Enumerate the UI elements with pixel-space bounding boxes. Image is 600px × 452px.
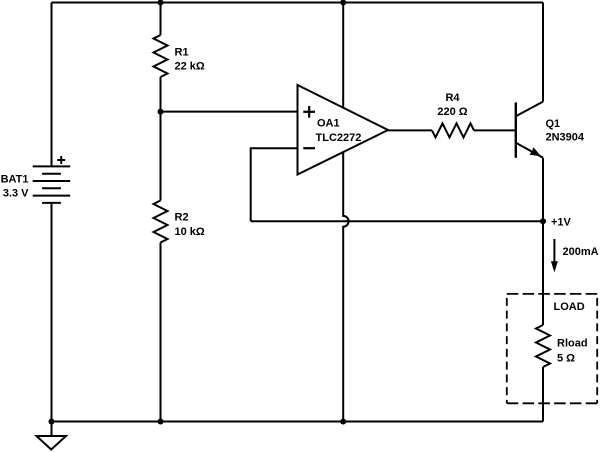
battery BAT1 — [33, 156, 70, 203]
wire: inverting input feedback (left and down) — [251, 148, 298, 221]
svg-text:LOAD: LOAD — [554, 301, 585, 313]
LOAD dashed box — [507, 294, 597, 403]
junction: ground node — [49, 419, 55, 425]
label LOAD — [554, 301, 585, 313]
junction: bottom rail / divider column — [158, 419, 164, 425]
wire: bottom rail — [52, 421, 544, 423]
junction: divider node to op-amp — [158, 109, 164, 115]
wire: R1 to R2 — [160, 77, 162, 201]
svg-text:R1: R1 — [175, 46, 189, 58]
current arrow 200mA — [551, 239, 558, 272]
label 200mA — [563, 246, 599, 258]
wire: +1V node to Rload — [542, 221, 544, 325]
wire: top rail to R1 — [160, 3, 162, 36]
junction: top rail / divider column — [158, 0, 164, 6]
op-amp OA1 — [298, 85, 389, 175]
svg-text:2N3904: 2N3904 — [546, 132, 585, 144]
svg-text:R2: R2 — [175, 211, 189, 223]
svg-text:Rload: Rload — [557, 338, 588, 350]
svg-text:+1V: +1V — [551, 216, 572, 228]
label OA1 TLC2272 — [316, 118, 362, 145]
wire: battery negative lead to bottom rail — [51, 203, 53, 422]
junction: +1V node — [540, 218, 546, 224]
junction: bottom rail / V- supply — [340, 419, 346, 425]
resistor R1 — [154, 35, 168, 77]
label Q1 2N3904 — [546, 118, 585, 144]
svg-text:Q1: Q1 — [546, 118, 561, 130]
wire: feedback run to emitter node — [251, 220, 543, 222]
svg-text:5 Ω: 5 Ω — [557, 353, 575, 365]
resistor R2 — [154, 201, 168, 243]
resistor Rload — [536, 325, 550, 367]
svg-text:R4: R4 — [445, 92, 460, 104]
wire: top rail — [52, 2, 544, 4]
svg-text:3.3 V: 3.3 V — [3, 188, 29, 200]
label R1 22 kOhm — [175, 46, 205, 72]
label R2 10 kOhm — [175, 211, 205, 238]
wire: Q1 emitter to +1V node — [542, 158, 544, 222]
label Rload 5 Ohm — [557, 338, 588, 365]
wire: R4 to Q1 base — [474, 129, 516, 131]
svg-text:TLC2272: TLC2272 — [316, 132, 362, 144]
svg-text:200mA: 200mA — [563, 246, 599, 258]
ground — [37, 422, 67, 450]
junction: top rail / V+ supply — [340, 0, 346, 6]
wire: op-amp V+ supply from top rail — [342, 3, 344, 108]
svg-text:22 kΩ: 22 kΩ — [175, 61, 205, 73]
resistor R4 — [432, 123, 474, 137]
svg-text:220 Ω: 220 Ω — [437, 106, 467, 118]
label BAT1 3.3 V — [1, 174, 30, 200]
svg-text:OA1: OA1 — [317, 118, 340, 130]
wire: R2 to bottom rail — [160, 243, 162, 422]
label R4 220 Ohm — [437, 92, 467, 118]
svg-text:BAT1: BAT1 — [1, 174, 29, 186]
wire: battery positive lead — [51, 3, 53, 167]
wire: Rload to bottom rail — [542, 367, 544, 422]
svg-text:10 kΩ: 10 kΩ — [175, 226, 205, 238]
wire: Q1 collector to top rail — [542, 3, 544, 102]
wire: op-amp V- supply to bottom rail with hop over feedback — [343, 152, 348, 421]
wire: divider node to op-amp non-inverting input — [161, 111, 298, 113]
transistor Q1 — [516, 102, 543, 158]
label node +1V — [551, 216, 572, 228]
wire: op-amp output to R4 — [388, 129, 432, 131]
